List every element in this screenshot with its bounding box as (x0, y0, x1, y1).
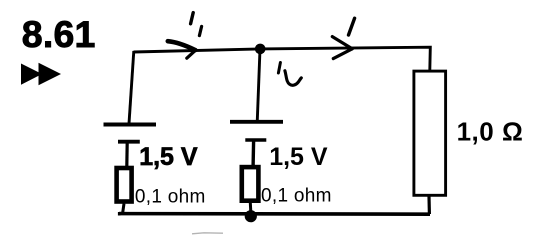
resistor r1 value label 0,1 ohm (135, 186, 206, 207)
battery B1 (1.5 V cell), long plate (104, 123, 157, 127)
current arrow I1 on top wire (168, 41, 196, 58)
marker arrowheads (double play symbol) (21, 63, 61, 85)
problem number label 8.61 (22, 13, 96, 55)
svg-text:0,1 ohm: 0,1 ohm (135, 186, 206, 207)
resistor R load 1.0 ohm (414, 71, 446, 195)
wire: top horizontal, right segment with drop to load resistor (260, 47, 430, 70)
node: bottom junction (245, 210, 257, 222)
battery B2 (1.5 V cell), long plate (230, 120, 283, 124)
resistor r2 value label 0,1 ohm (261, 186, 332, 207)
svg-text:1,5 V: 1,5 V (269, 143, 328, 171)
current arrow I on top wire (332, 37, 352, 59)
svg-text:1,0 Ω: 1,0 Ω (457, 117, 524, 147)
wire: r1 to bottom rail (123, 204, 125, 215)
resistor r1 (internal resistance) (117, 168, 132, 202)
battery B1 value label 1,5 V (139, 143, 198, 171)
battery B2 short plate (245, 140, 266, 166)
wire: load resistor to bottom rail (427, 196, 431, 214)
resistor r2 (internal resistance) (242, 167, 259, 201)
wire: r2 to bottom node (249, 203, 253, 213)
node: top junction (255, 44, 266, 55)
svg-text:8.61: 8.61 (22, 13, 96, 55)
wire: bottom rail (119, 212, 430, 216)
battery B1 short plate (118, 142, 140, 167)
wire: top horizontal, left segment (corner to top node) (134, 49, 261, 52)
current label I2 (278, 63, 301, 86)
svg-text:0,1 ohm: 0,1 ohm (261, 186, 332, 207)
current label I (349, 18, 355, 35)
wire: middle branch vertical (top node to battery B2) (257, 49, 260, 120)
battery B2 value label 1,5 V (269, 143, 328, 171)
load resistor value label 1,0 ohm (457, 117, 524, 147)
wire: left branch vertical (129, 51, 134, 124)
current label I1 (191, 13, 202, 36)
svg-text:1,5 V: 1,5 V (139, 143, 198, 171)
